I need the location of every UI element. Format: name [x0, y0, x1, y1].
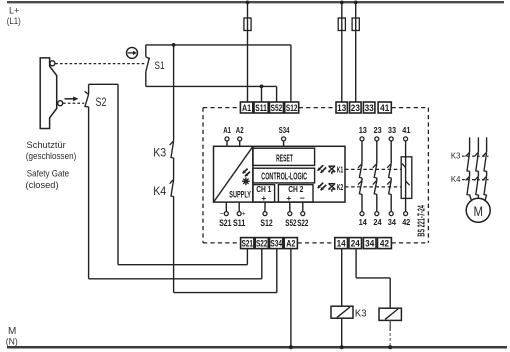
svg-text:K3: K3 [355, 307, 367, 319]
svg-text:S52: S52 [285, 218, 296, 229]
svg-text:L+: L+ [9, 6, 19, 16]
svg-text:41: 41 [380, 103, 389, 113]
svg-text:−: − [220, 211, 224, 218]
svg-text:S21: S21 [241, 239, 253, 249]
svg-text:23: 23 [374, 126, 383, 135]
svg-text:13: 13 [337, 103, 346, 113]
svg-text:A1: A1 [223, 126, 231, 135]
svg-text:(geschlossen): (geschlossen) [26, 151, 77, 161]
svg-text:K3: K3 [451, 152, 461, 161]
svg-text:S2: S2 [96, 97, 107, 109]
svg-text:14: 14 [337, 239, 346, 249]
svg-text:33: 33 [365, 103, 374, 113]
svg-text:+: + [286, 193, 291, 203]
svg-text:A1: A1 [242, 103, 251, 113]
svg-text:(L1): (L1) [7, 16, 21, 26]
svg-text:+: + [261, 193, 266, 203]
svg-text:S22: S22 [256, 239, 268, 249]
svg-text:14: 14 [359, 218, 368, 227]
svg-text:S11: S11 [255, 103, 267, 113]
svg-text:33: 33 [388, 126, 397, 135]
svg-text:41: 41 [402, 126, 411, 135]
svg-text:S34: S34 [270, 239, 282, 249]
svg-text:K4: K4 [451, 175, 461, 184]
svg-text:34: 34 [365, 239, 374, 249]
svg-text:M: M [473, 203, 483, 219]
svg-text:42: 42 [402, 218, 411, 227]
svg-text:S12: S12 [286, 103, 298, 113]
svg-text:+: + [242, 211, 246, 218]
svg-text:K3: K3 [153, 148, 166, 160]
svg-text:42: 42 [380, 239, 389, 249]
svg-text:24: 24 [351, 239, 360, 249]
svg-text:34: 34 [388, 218, 397, 227]
svg-text:RESET: RESET [276, 154, 293, 165]
svg-text:S1: S1 [155, 60, 165, 72]
svg-text:S12: S12 [260, 218, 272, 229]
svg-text:SUPPLY: SUPPLY [229, 190, 251, 201]
svg-text:24: 24 [373, 218, 382, 227]
svg-text:A2: A2 [286, 239, 295, 249]
svg-text:M: M [8, 326, 16, 337]
svg-text:(N): (N) [6, 337, 18, 347]
svg-text:23: 23 [351, 103, 360, 113]
svg-text:CONTROL-LOGIC: CONTROL-LOGIC [261, 172, 307, 183]
svg-text:S52: S52 [271, 103, 283, 113]
svg-text:−: − [300, 193, 305, 203]
svg-text:Schutztür: Schutztür [27, 140, 66, 150]
svg-text:K4: K4 [153, 186, 167, 198]
svg-text:K2: K2 [337, 182, 344, 192]
svg-text:Safety Gate: Safety Gate [27, 168, 69, 178]
svg-text:(closed): (closed) [26, 180, 59, 190]
svg-text:BS 221-7-24: BS 221-7-24 [417, 205, 428, 237]
svg-text:S34: S34 [279, 126, 290, 135]
svg-text:A2: A2 [236, 126, 244, 135]
svg-text:S22: S22 [297, 218, 308, 229]
svg-text:13: 13 [359, 126, 368, 135]
svg-text:K1: K1 [337, 165, 344, 175]
svg-text:S11: S11 [233, 218, 246, 229]
svg-text:S21: S21 [219, 218, 232, 229]
